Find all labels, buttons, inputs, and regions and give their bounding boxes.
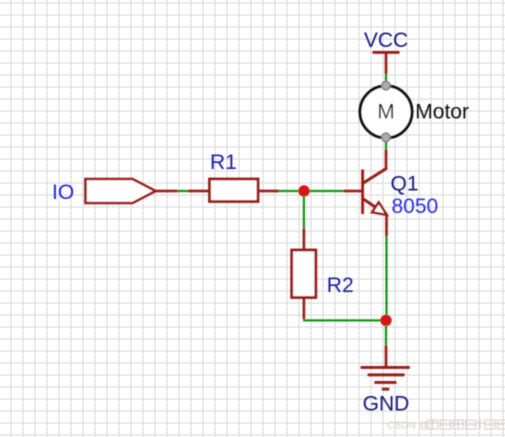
svg-text:CSDN @: CSDN @: [387, 421, 429, 432]
wire node B to ground: [385, 326, 388, 368]
net label IO: [52, 181, 74, 204]
svg-text:GND: GND: [363, 393, 410, 416]
value 8050: [392, 195, 439, 218]
label R1: [210, 151, 237, 174]
label Motor: [415, 101, 469, 124]
label GND: [363, 393, 410, 416]
watermark: [387, 419, 505, 432]
svg-text:IO: IO: [52, 181, 74, 204]
svg-text:R1: R1: [210, 151, 237, 174]
wire collector up to motor: [385, 141, 388, 169]
port IO: [86, 179, 156, 203]
svg-text:8050: 8050: [392, 195, 439, 218]
wire node A down to R2: [303, 196, 306, 250]
power port VCC: [364, 29, 408, 82]
svg-text:Q1: Q1: [391, 173, 419, 196]
svg-text:M: M: [377, 101, 395, 124]
junction node A: [298, 185, 309, 196]
label R2: [327, 274, 354, 297]
resistor R1: [210, 179, 259, 202]
motor M1: [360, 81, 412, 141]
transistor Q1: [361, 168, 387, 215]
wire emitter down to node B: [385, 214, 388, 315]
resistor R2: [292, 250, 316, 298]
ground: [361, 366, 410, 391]
label Q1: [391, 173, 419, 196]
junction node B: [380, 315, 391, 326]
svg-text:R2: R2: [327, 274, 354, 297]
wire R2 bottom to node B: [303, 298, 386, 322]
svg-text:Motor: Motor: [415, 101, 469, 124]
transistor Q1 base pin wire: [344, 190, 362, 193]
wire R1 to node A: [258, 190, 344, 193]
wire port to R1: [156, 190, 210, 193]
svg-text:VCC: VCC: [364, 29, 408, 52]
